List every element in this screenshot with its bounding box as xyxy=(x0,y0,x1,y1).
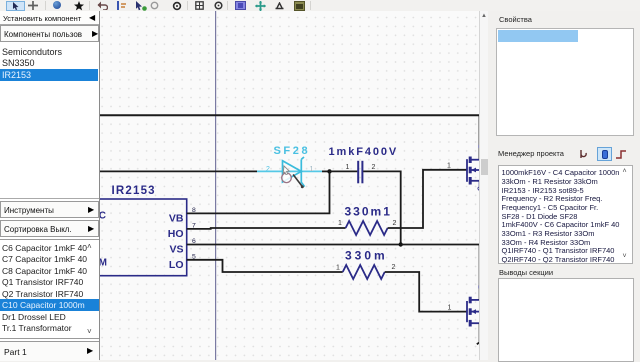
wire: VB pin8 up to node A xyxy=(187,171,330,213)
IC U1 IR2153 box xyxy=(88,199,187,276)
svg-text:1: 1 xyxy=(338,220,342,227)
svg-text:1: 1 xyxy=(336,265,340,272)
svg-text:LO: LO xyxy=(169,259,184,271)
small dark icon xyxy=(275,2,284,10)
wire: Q1 source stub xyxy=(479,181,481,191)
svg-text:SF28: SF28 xyxy=(274,145,311,157)
wire: R3 to Q1 gate xyxy=(388,170,467,228)
mouse cursor arrow xyxy=(283,166,289,175)
header: Установить компонент xyxy=(0,11,99,25)
canvas xyxy=(100,11,479,360)
gear icon xyxy=(172,1,182,11)
svg-text:1mkF400V: 1mkF400V xyxy=(329,146,399,158)
cursor+green icon xyxy=(135,1,147,11)
dark square icon xyxy=(195,1,204,10)
gray ring xyxy=(150,1,159,10)
canvas vertical scrollbar xyxy=(479,11,488,360)
project list xyxy=(498,165,633,264)
svg-text:1: 1 xyxy=(447,163,451,170)
svg-text:CC: CC xyxy=(100,211,106,222)
pins box xyxy=(498,278,634,362)
wire: C6 to VS net (down) xyxy=(363,171,401,244)
diode D1 SF28 xyxy=(283,157,305,187)
svg-text:2: 2 xyxy=(266,166,270,173)
teal move icon xyxy=(255,1,266,11)
header: Компоненты пользователя xyxy=(0,25,99,42)
cursor pen nib xyxy=(301,185,304,188)
blue ball icon xyxy=(53,1,61,9)
wire: net to diode anode xyxy=(100,170,257,172)
wire: diode cathode to node A xyxy=(322,170,330,172)
resistor R4 330m zigzag xyxy=(343,265,385,279)
svg-text:2: 2 xyxy=(372,164,376,171)
wire: node A to C6 xyxy=(330,170,358,172)
wire: R4 to Q2 gate xyxy=(385,272,467,312)
svg-text:OM: OM xyxy=(100,258,107,269)
small icon 1 xyxy=(579,149,588,159)
resistor R3 330m1 zigzag xyxy=(346,221,388,235)
svg-text:330m: 330m xyxy=(345,249,388,263)
Инструменты bar xyxy=(0,201,99,219)
svg-text:1: 1 xyxy=(310,166,314,173)
black star icon xyxy=(74,1,84,11)
svg-text:330m1: 330m1 xyxy=(345,205,392,219)
mouse cursor circle xyxy=(282,173,292,183)
wire: LO pin5 to R4 xyxy=(187,260,343,272)
wire: Q2 drain to node B xyxy=(479,245,481,300)
wire: Q2 source stub xyxy=(477,323,480,344)
transistor Q2 IRF740 xyxy=(467,297,480,327)
svg-text:1: 1 xyxy=(346,164,350,171)
list scrollbar arrows xyxy=(87,242,92,251)
wire: node B to Q2 drain xyxy=(401,244,480,246)
small icon 3 xyxy=(615,149,628,160)
svg-text:IR2153: IR2153 xyxy=(112,185,156,197)
undo icon xyxy=(97,1,108,10)
purple chip icon xyxy=(235,1,246,10)
svg-text:HO: HO xyxy=(168,228,184,240)
node B junction dot xyxy=(399,242,403,246)
redo/ruler icon xyxy=(116,1,127,10)
wire: selected segment through diode D1 (cyan) xyxy=(257,170,322,172)
grid axis line xyxy=(215,11,217,360)
wire: HO pin7 to R3 xyxy=(187,227,346,230)
top toolbar xyxy=(0,0,640,12)
olive picture icon xyxy=(294,1,305,11)
Сортировка bar xyxy=(0,220,99,238)
svg-text:1: 1 xyxy=(448,305,452,312)
dark ring icon xyxy=(214,1,223,10)
capacitor C6 plates xyxy=(358,161,362,184)
right panel xyxy=(488,11,640,360)
svg-text:VB: VB xyxy=(169,212,184,224)
transistor Q1 IRF740 xyxy=(467,157,480,185)
svg-text:2: 2 xyxy=(392,264,396,271)
wire: VS pin6 to node B xyxy=(187,244,401,246)
svg-text:VS: VS xyxy=(169,243,183,255)
bottom list xyxy=(0,239,99,339)
Part 1 bar xyxy=(0,341,99,361)
left panel xyxy=(0,11,100,360)
highlighted button xyxy=(597,147,612,162)
select-tool button (active) xyxy=(6,1,25,11)
node A junction dot xyxy=(327,169,331,173)
wire: top power rail xyxy=(100,115,480,159)
cursor pen stroke xyxy=(294,175,302,186)
svg-text:2: 2 xyxy=(393,220,397,227)
top list xyxy=(0,42,99,199)
properties box xyxy=(496,28,634,136)
plus tool xyxy=(28,1,38,10)
